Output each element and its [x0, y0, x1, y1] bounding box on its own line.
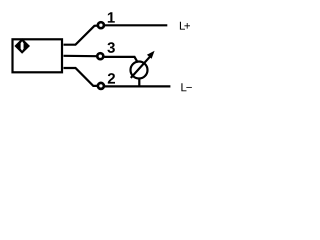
- pin label 1: [108, 12, 115, 22]
- wire pin1 from body to terminal 1: [64, 26, 98, 45]
- sensor body (proximity switch outline): [13, 39, 63, 72]
- terminal 3: [97, 53, 103, 59]
- wire L-: [105, 85, 170, 87]
- pin label 2: [108, 73, 115, 83]
- wire pin3 from body to terminal 3: [64, 55, 97, 58]
- wire L+: [105, 24, 167, 26]
- terminal 1: [98, 22, 104, 28]
- load (adjustable) circle: [131, 62, 148, 79]
- net label L+: [180, 22, 185, 30]
- load arrow head: [147, 51, 155, 59]
- sensor symbol lens: [21, 41, 24, 50]
- terminal 2: [98, 83, 104, 89]
- wire load to L-: [138, 79, 140, 87]
- pin label 3: [107, 42, 114, 53]
- load arrow shaft: [131, 56, 151, 78]
- wire terminal3 to load: [104, 57, 138, 63]
- net label L-: [181, 83, 186, 91]
- sensor symbol diamond: [14, 38, 30, 54]
- wire pin2 from body to terminal 2: [64, 68, 98, 86]
